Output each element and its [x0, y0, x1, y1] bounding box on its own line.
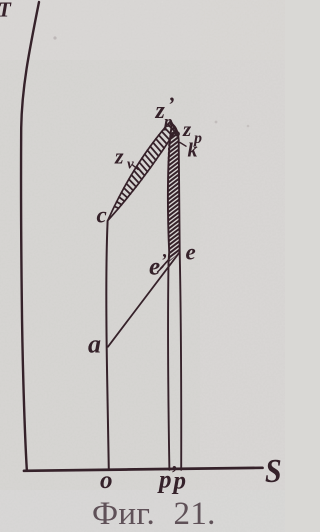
svg-text:p: p — [162, 112, 173, 131]
svg-text:v: v — [127, 157, 134, 173]
svg-text:c: c — [97, 203, 107, 228]
scan noise overlay — [0, 0, 1, 1]
svg-text:p: p — [172, 468, 187, 495]
curve z-p apex down to p-prime (band left edge) — [168, 125, 172, 470]
svg-text:T: T — [0, 0, 12, 22]
left band upper edge (c to z-prime apex) — [108, 121, 171, 221]
point marker z-p — [175, 131, 180, 136]
T axis vertical line — [21, 2, 39, 470]
svg-text:z: z — [182, 117, 192, 141]
vertical line c to o — [106, 222, 108, 470]
hatch tail below e-prime — [158, 259, 170, 273]
left band lower edge — [108, 130, 176, 220]
speck 1 — [53, 36, 56, 39]
curve apex shoulder down to p (band right edge) — [172, 124, 181, 470]
speck 2 — [215, 121, 218, 124]
tick from z-v label — [132, 165, 138, 170]
svg-text:e: e — [186, 240, 196, 265]
svg-text:k: k — [188, 140, 198, 162]
svg-text:S: S — [265, 451, 282, 489]
svg-text:z: z — [114, 144, 124, 169]
svg-text:Фиг. 21.: Фиг. 21. — [92, 496, 216, 532]
svg-text:’: ’ — [161, 251, 167, 272]
diagonal line a to e — [108, 252, 180, 346]
right band hatching (diagonal strokes) — [163, 116, 184, 279]
speck 3 — [247, 125, 250, 128]
svg-text:a: a — [88, 330, 101, 359]
svg-text:o: o — [100, 467, 113, 494]
svg-text:e: e — [149, 254, 160, 281]
S axis horizontal line — [24, 468, 263, 471]
left band hatching (ladder rungs) — [114, 121, 175, 208]
tick to k — [180, 143, 186, 147]
